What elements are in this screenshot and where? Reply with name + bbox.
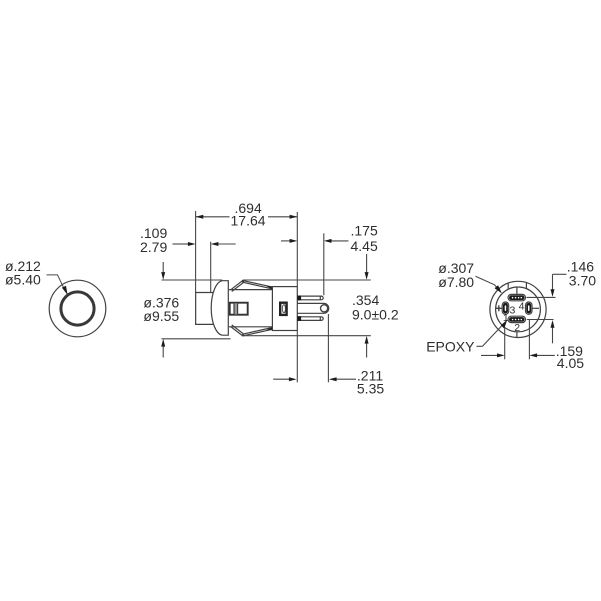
button cap rectangle [196,293,213,325]
dim .211 right arrow shaft [336,378,356,380]
clip body bottom line [229,326,272,328]
clip peak joint [242,280,244,282]
top spring clip inner [232,282,273,291]
top spring clip outer [231,281,273,290]
ext line pin-right [528,320,530,360]
rear outer circle [490,281,546,337]
bottom pin [298,317,324,321]
svg-text:3: 3 [510,305,516,317]
ext line pin-end [323,233,325,295]
arrow .211 left [289,377,297,381]
9.0 up arrow [366,344,368,358]
lug hole [321,305,328,312]
ext line lug-end [327,314,329,382]
svg-text:4.05: 4.05 [557,355,584,371]
leader dia .307 [476,276,500,290]
svg-text:2.79: 2.79 [140,239,167,255]
ext line cap-front [195,211,197,292]
arrow .694 left [196,215,204,219]
EPOXY leader [483,325,503,346]
arrow .109 right [211,242,219,246]
polarity plus mark [496,307,502,309]
dia9.55 down arrow [162,262,164,273]
latch tooth lines [234,303,238,314]
top pin root (solid) [297,296,301,301]
.146 jog [553,273,567,275]
ext line pin3 [504,328,506,360]
svg-text:ø5.40: ø5.40 [5,271,41,287]
ref line dia9.55 top [162,279,223,281]
bottom spring clip inner [232,325,273,334]
dim .175 right arrow shaft [331,240,349,242]
svg-text:9.0±0.2: 9.0±0.2 [352,306,399,322]
top pin [298,296,324,300]
pin 4 stadium (top) [508,294,526,300]
dim .175 left arrow shaft [281,240,290,242]
svg-text:ø7.80: ø7.80 [438,274,474,290]
top clip right dark wedge [266,286,273,289]
ring tick top-right [525,283,527,289]
ring tick top-left [507,283,509,289]
leader line for lens diameter [47,275,65,290]
dim line .694 right segment [268,216,297,218]
ext line cap-rear [210,242,212,292]
pin 2 stadium (bottom) [508,316,526,322]
clip body top line [229,289,272,291]
middle lug [298,303,329,313]
vertical centerline top seg [516,287,518,294]
9.0 down arrow [366,254,368,273]
svg-text:3.70: 3.70 [569,272,596,288]
ref line dia9.55 bottom [162,338,231,340]
bottom pin end cap [319,317,321,321]
dim line .694 left segment [196,216,230,218]
bottom spring clip outer [231,327,273,336]
.146 up arrow [552,327,554,343]
.159 right arrow [537,354,555,356]
svg-text:5.35: 5.35 [357,380,384,396]
dia9.55 up arrow [162,346,164,358]
.146 down arrow [551,289,555,297]
svg-text:ø9.55: ø9.55 [143,308,179,324]
ref line pin4 center [527,296,556,298]
dome lens half-ellipse [211,281,228,336]
ext line block-rear (bottom) [296,331,298,382]
slot inner ellipse [282,305,285,313]
lens inner circle (bold) [61,292,94,325]
latch window [230,303,248,315]
ref line 9.0 bottom [242,335,371,337]
.159 left arrow [481,354,498,356]
EPOXY dash [477,345,483,347]
vertical centerline bottom seg [516,332,518,338]
arrow .211 right [329,377,337,381]
svg-text:EPOXY: EPOXY [426,338,475,354]
dim .109 right arrow shaft [218,243,236,245]
arrow .175 left [290,239,298,243]
dim .211 left arrow shaft [273,378,289,380]
dim .109 left arrow shaft [173,243,189,245]
bezel outer circle [49,280,106,337]
ref line 9.0 top [243,279,371,281]
svg-text:2: 2 [514,322,520,334]
bottom pin root (solid) [297,316,301,321]
arrow .694 right [290,215,298,219]
rear housing block [272,287,297,331]
top pin end cap [319,296,321,300]
block slot (thick) [280,303,286,315]
bottom clip right dark wedge [266,327,273,330]
leader arrowhead [62,286,68,295]
svg-text:.175: .175 [351,222,378,238]
ref line pin2 center [527,319,554,321]
pin 3 stadium (left) [502,302,509,314]
rear inner circle [496,287,541,332]
svg-text:17.64: 17.64 [231,213,266,229]
ext line block-rear (top) [296,212,298,286]
svg-text:4: 4 [519,301,525,313]
pin right stadium [526,302,533,314]
arrow .175 right [324,239,332,243]
horizontal centerline right seg [532,307,539,309]
svg-text:4.45: 4.45 [351,238,378,254]
arrow .109 left [188,242,196,246]
